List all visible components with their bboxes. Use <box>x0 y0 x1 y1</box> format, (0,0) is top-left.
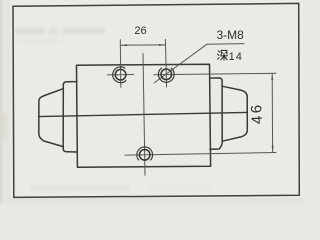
bottom margin tint <box>10 198 303 204</box>
46 dimension line <box>271 74 273 153</box>
mounting plate (front face) <box>77 64 211 167</box>
text 深14 : 深 drawn as strokes <box>218 50 228 60</box>
hole TR circles <box>158 68 174 82</box>
hole TL circles <box>113 67 127 83</box>
26 dim arrowheads <box>121 44 128 46</box>
bottom hole circles <box>137 147 153 160</box>
thin line work <box>108 39 277 175</box>
hole TR crosshair horizontal + 46 top extension <box>154 73 276 74</box>
body mid parting line <box>39 112 248 116</box>
left collar <box>63 82 77 152</box>
right collar <box>210 78 223 149</box>
46 dim arrowheads <box>271 74 273 81</box>
vertical centerline through bottom hole <box>143 54 145 176</box>
border frame <box>13 3 299 197</box>
hole TL vertical / 26 extension left <box>119 40 122 88</box>
svg-text:3-M8: 3-M8 <box>217 28 245 42</box>
svg-text:14: 14 <box>229 51 243 63</box>
left frustum (cone end) <box>39 89 63 147</box>
svg-text:46: 46 <box>248 102 266 125</box>
ghost bleed-through text upper left <box>0 28 210 192</box>
leader diagonal to hole TR <box>154 44 207 83</box>
bottom hole crosshair horizontal + 46 bottom extension <box>125 153 276 156</box>
left scan shadow <box>0 0 3 204</box>
leader shelf <box>207 43 244 46</box>
26 dimension line <box>120 44 165 46</box>
hole TR vertical / 26 extension right <box>165 39 166 87</box>
svg-text:26: 26 <box>134 25 146 37</box>
right frustum (cone end) <box>222 86 247 141</box>
hole TL crosshair horizontal <box>108 74 134 76</box>
